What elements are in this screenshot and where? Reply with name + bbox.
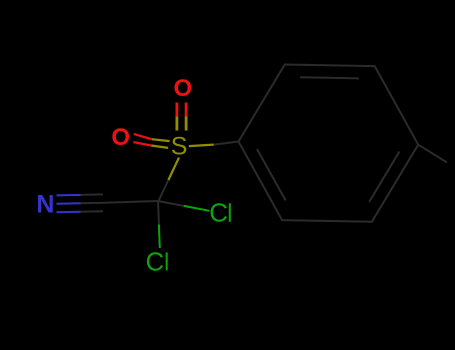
svg-text:O: O — [173, 75, 192, 102]
svg-text:N: N — [36, 191, 54, 219]
svg-text:C: C — [146, 248, 164, 276]
svg-text:C: C — [209, 198, 228, 228]
svg-text:O: O — [111, 124, 130, 151]
svg-text:S: S — [171, 132, 188, 160]
